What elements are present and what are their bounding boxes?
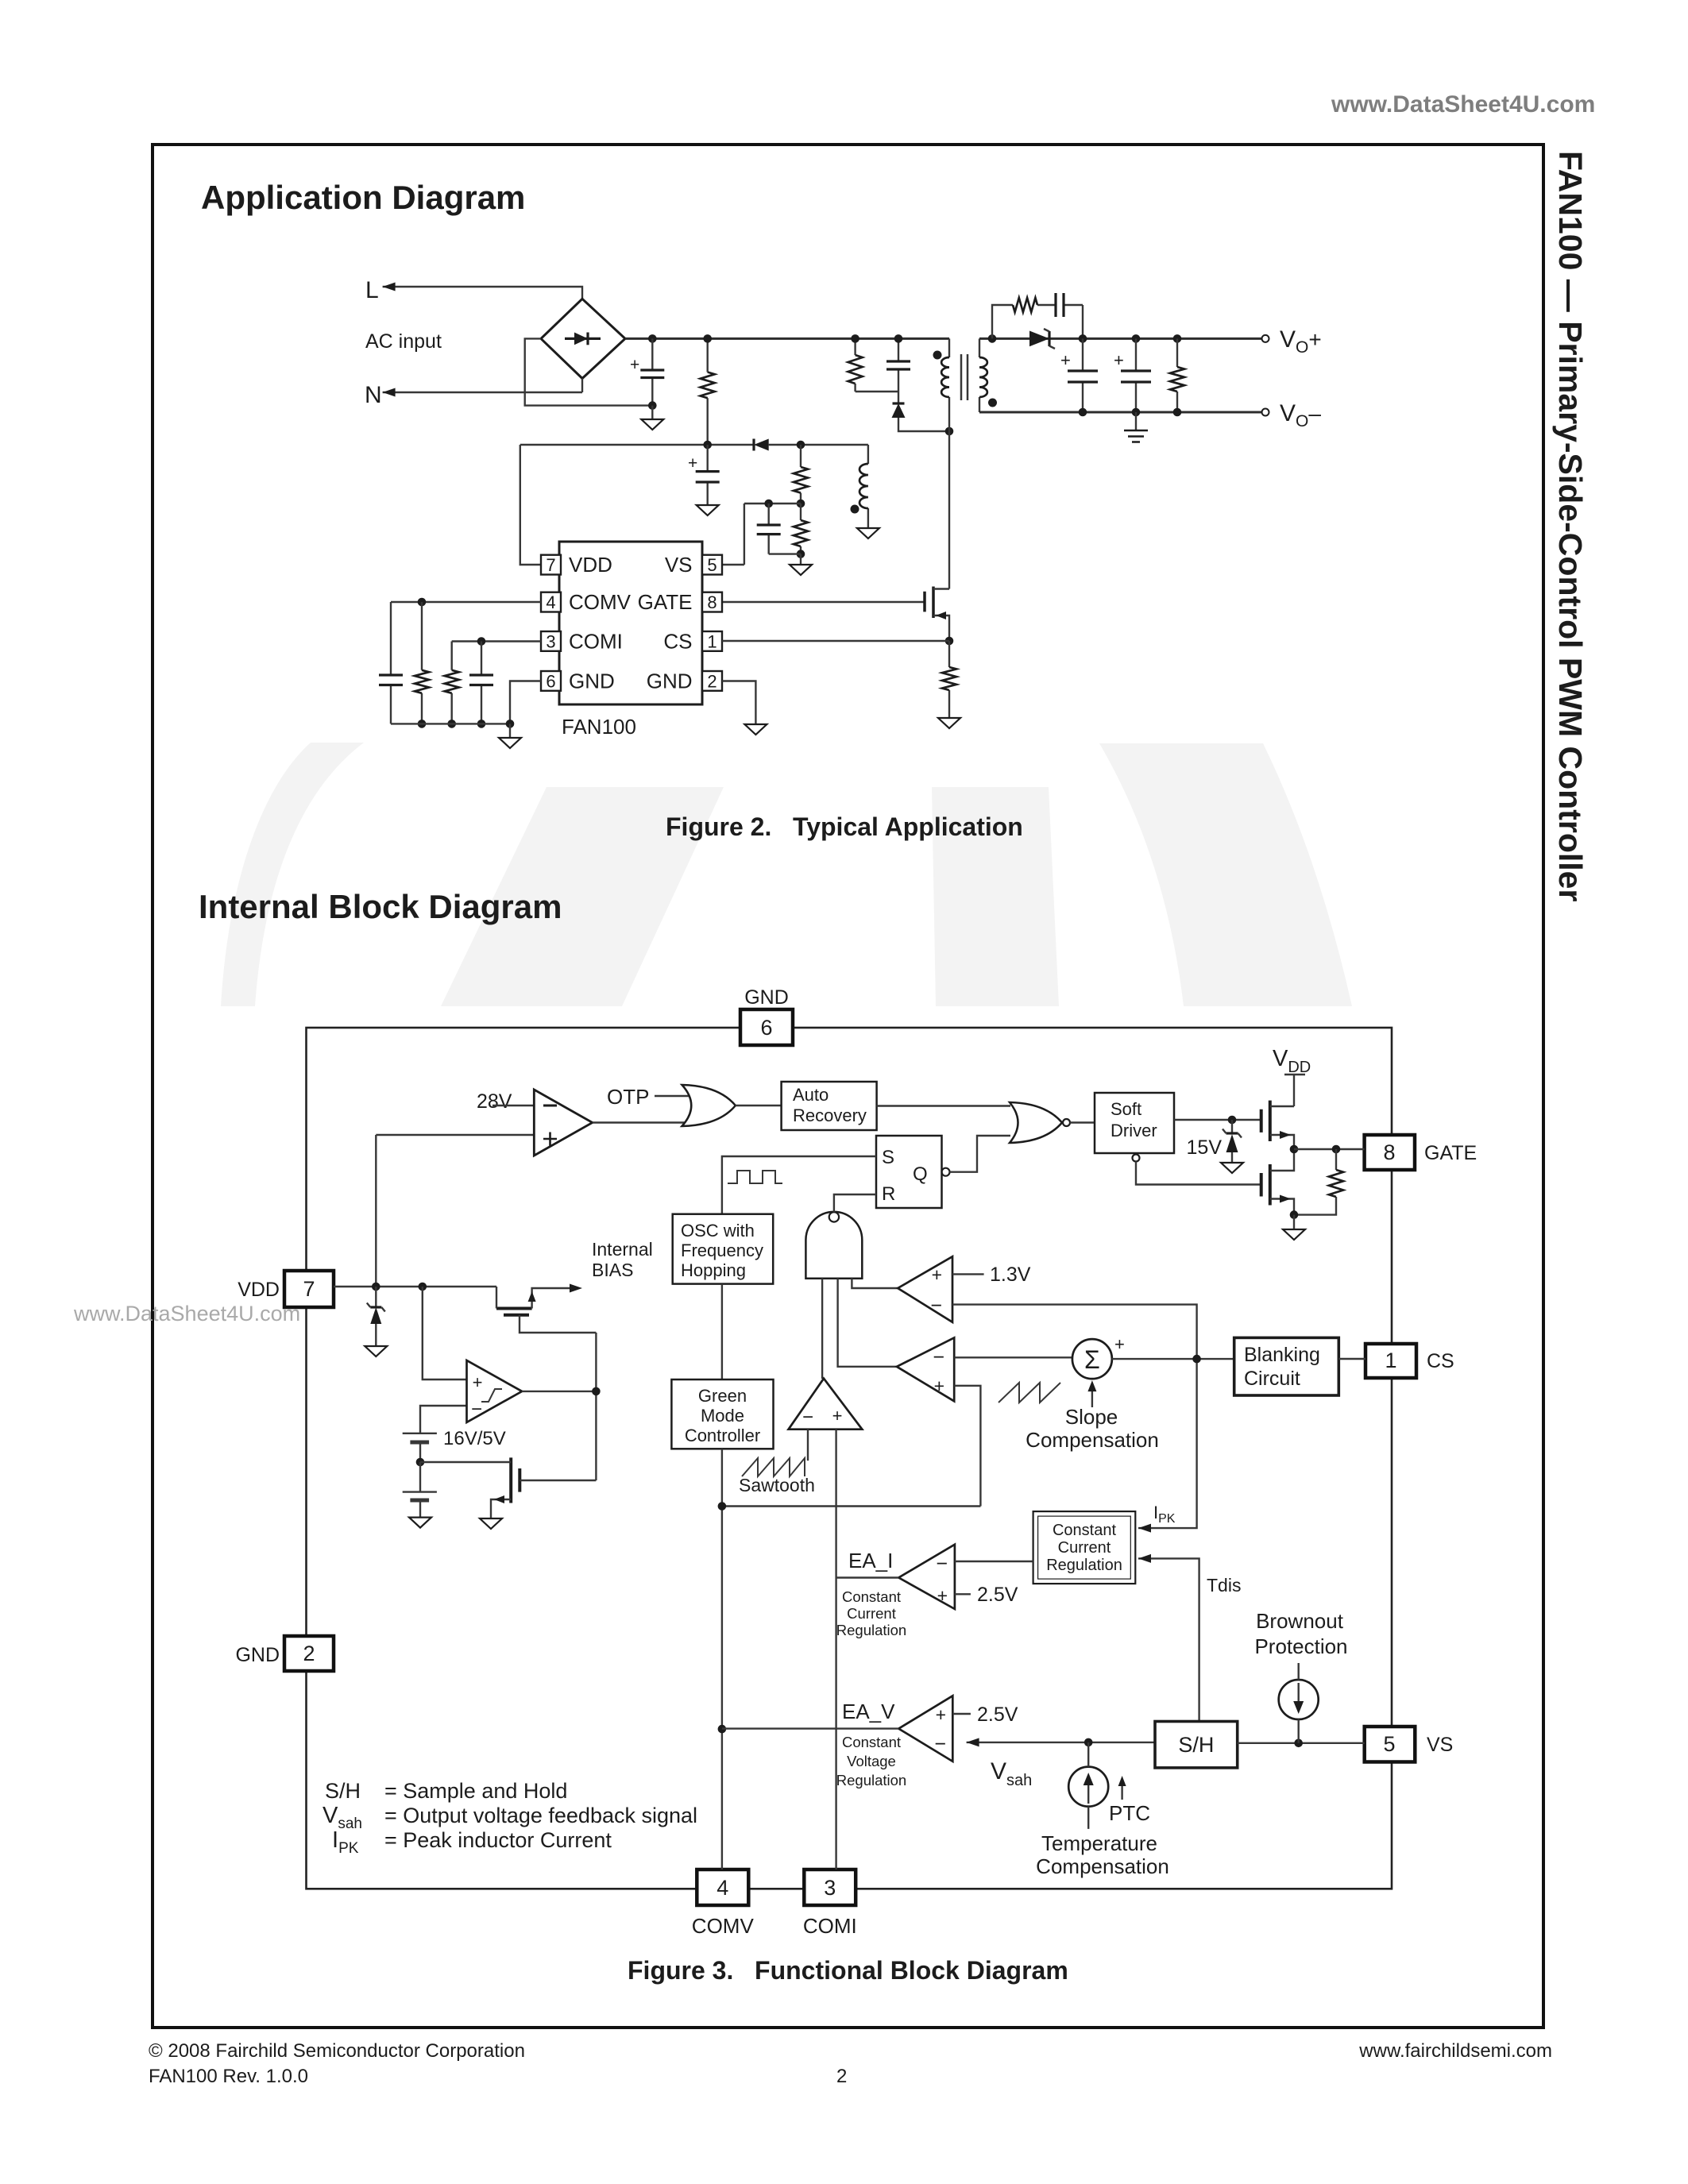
wire OSC to GMC [721,1284,723,1379]
sidebar title [1552,151,1589,901]
svg-text:Regulation: Regulation [1046,1557,1122,1574]
svg-text:−: − [930,1295,942,1317]
wire VDD pin to regulator [334,1286,496,1287]
svg-text:Controller: Controller [685,1426,760,1445]
square wave symbol [728,1171,782,1183]
wire Auto Recovery to NOR [877,1105,1010,1106]
resistor R1 startup [701,338,715,445]
svg-text:FAN100: FAN100 [562,715,636,739]
junction [797,441,805,450]
pin 1 CS [1365,1344,1416,1378]
block OSC with Frequency Hopping [673,1214,774,1284]
pin 4 [541,592,561,612]
svg-text:8: 8 [1383,1140,1395,1164]
block SH sample hold [1155,1722,1238,1768]
zener D5 15V [1223,1120,1242,1163]
svg-text:+: + [473,1372,483,1392]
transformer T1 [941,338,987,431]
svg-text:GND: GND [744,986,789,1009]
capacitor C6 snubber [856,338,910,392]
wire EA_I minus [955,1561,1033,1562]
svg-text:Slope: Slope [1065,1405,1118,1429]
wire EA_V plus ref [952,1713,971,1715]
junction [648,334,657,343]
latch U4 SR [876,1136,942,1208]
svg-text:Protection: Protection [1254,1634,1347,1658]
pin 2 [702,671,722,691]
battery B2 [403,1462,437,1518]
svg-text:Constant: Constant [842,1734,901,1750]
wire S input from OSC [722,1156,876,1214]
wire CS [722,640,949,642]
svg-text:+: + [630,356,639,374]
svg-text:COMV: COMV [569,590,632,614]
wire Tdis [1138,1558,1199,1721]
diode D2 aux [754,439,769,451]
svg-text:Compensation: Compensation [1036,1854,1169,1878]
ground [744,724,767,735]
svg-text:5: 5 [707,555,717,575]
svg-text:1.3V: 1.3V [990,1264,1031,1286]
wire driver high output [1174,1119,1261,1121]
svg-text:+: + [1114,1334,1125,1354]
svg-text:3: 3 [546,632,555,652]
wire SH to VS pin [1238,1742,1365,1744]
wire OR to Auto Recovery [736,1105,782,1106]
junction [894,334,903,343]
wire GND2 pin [722,681,755,725]
svg-text:+: + [688,454,697,473]
svg-text:Mode: Mode [701,1406,744,1426]
resistor R4 snubber [848,338,863,392]
svg-text:S/H: S/H [325,1779,361,1803]
junction [703,441,712,450]
wire OTP input [655,1095,691,1097]
wire PWM plus to COMV node [722,1386,981,1507]
svg-text:BIAS: BIAS [592,1260,633,1280]
svg-text:www.DataSheet4U.com: www.DataSheet4U.com [73,1302,300,1325]
svg-text:GND: GND [235,1644,280,1666]
pin 4 COMV [697,1870,748,1905]
nor-gate U5 [1010,1102,1062,1143]
wire L line [383,287,582,299]
nand U6 PWM logic [805,1212,862,1279]
wire comp ground rail [391,723,510,724]
svg-text:7: 7 [546,555,555,575]
block Soft Driver [1095,1093,1174,1153]
wire PWM minus to summer [954,1356,1072,1358]
wire N line [383,392,582,393]
arrow PTC [1121,1784,1122,1800]
svg-text:www.fairchildsemi.com: www.fairchildsemi.com [1358,2040,1552,2062]
wire secondary bottom rail [979,411,1262,414]
VDD supply bar [1284,1075,1305,1106]
svg-text:2.5V: 2.5V [977,1584,1018,1606]
svg-text:4: 4 [717,1876,728,1900]
svg-text:GATE: GATE [638,590,693,614]
junction [648,401,657,410]
svg-text:Internal Block Diagram: Internal Block Diagram [199,888,562,925]
capacitor C3 VS filter [757,504,801,554]
block Constant Current Regulation [1033,1511,1136,1584]
wire input DC rail [625,338,949,340]
comparator U11 EA_V [898,1696,952,1761]
page frame [153,145,1543,2028]
svg-text:Frequency: Frequency [681,1241,763,1260]
wire GND6 [510,681,541,724]
wire sawtooth input [807,1430,809,1461]
wire NAND mid input from PWM comparator [838,1279,897,1367]
comparator U9 green mode [789,1379,863,1430]
svg-text:R: R [882,1183,895,1205]
junction [797,550,805,558]
svg-text:Figure 3. Functional Block D: Figure 3. Functional Block Diagram [628,1956,1068,1985]
pin 3 COMI [804,1870,856,1905]
wire slope comp arrow [1091,1389,1093,1407]
svg-text:+: + [936,1704,946,1725]
svg-text:GATE: GATE [1424,1142,1477,1164]
junction [797,500,805,508]
ground [480,1518,502,1529]
svg-text:1: 1 [1385,1349,1396,1372]
svg-text:Q: Q [913,1163,928,1185]
pin 6 [541,671,561,691]
wire NOR to Soft Driver [1070,1121,1095,1123]
capacitor C8 output [1114,338,1151,412]
svg-text:−: − [802,1406,813,1428]
resistor R5 sense [942,641,956,718]
junction [764,500,773,508]
ground [409,1518,431,1528]
wire NAND right input from 1.3V comparator [852,1279,898,1288]
current source PTC [1068,1742,1108,1829]
junction [703,334,712,343]
svg-text:AC input: AC input [365,330,442,353]
wire Q to NOR [950,1136,1011,1172]
svg-text:FAN100 Rev. 1.0.0: FAN100 Rev. 1.0.0 [149,2066,308,2087]
svg-text:Σ: Σ [1084,1345,1100,1374]
svg-text:+: + [1060,350,1071,370]
block Auto Recovery [782,1082,877,1130]
svg-text:Green: Green [698,1386,747,1406]
resistor R6 load [1170,338,1184,412]
junction [851,334,859,343]
wire EA_I plus ref [955,1593,971,1595]
bridge rectifier BR1 [541,299,625,392]
junction [1173,334,1182,343]
svg-text:Tdis: Tdis [1207,1575,1241,1596]
svg-text:EA_V: EA_V [842,1700,895,1723]
pin 5 [702,555,722,575]
svg-text:2: 2 [707,672,717,692]
comparator U7 1.3V [898,1256,952,1322]
svg-text:2.5V: 2.5V [977,1704,1018,1726]
battery B1 16V/5V [403,1433,437,1462]
earth ground [1124,412,1148,442]
wire 1.3V ref [952,1273,984,1275]
svg-text:28V: 28V [477,1090,512,1113]
svg-text:Current: Current [847,1605,896,1622]
resistor R9 gate pulldown [1294,1149,1343,1215]
wire gate node [1294,1148,1365,1150]
summer S1 [1072,1339,1112,1379]
svg-text:Compensation: Compensation [1026,1428,1159,1452]
polarity dot primary [933,351,942,360]
comparator U2 28V OVP [376,1106,534,1135]
or-gate U3 [682,1085,736,1126]
ground [499,723,521,748]
transistor Q1 MOSFET [722,587,949,642]
svg-text:1: 1 [707,632,717,652]
svg-text:Hopping: Hopping [681,1260,746,1280]
RC feedback branch R+C [992,293,1083,338]
wire EA_I output [836,1576,899,1578]
svg-text:Regulation: Regulation [836,1772,906,1788]
capacitor C2 VDD [688,445,720,505]
svg-text:S/H: S/H [1178,1733,1214,1757]
svg-text:+: + [937,1585,948,1606]
polarity dot secondary [988,399,997,407]
svg-text:COMI: COMI [569,630,623,654]
wire comparator output [522,1333,596,1480]
svg-text:2: 2 [303,1642,315,1665]
current source brownout [1279,1663,1319,1743]
svg-text:5: 5 [1383,1732,1395,1756]
svg-text:Regulation: Regulation [836,1622,906,1638]
transistor Q3 driver low [1261,1149,1294,1215]
pin 1 [702,631,722,651]
svg-text:−: − [471,1399,482,1420]
svg-text:N: N [365,382,382,408]
svg-text:COMV: COMV [692,1914,755,1938]
ground [697,505,719,515]
svg-text:Auto: Auto [793,1085,829,1105]
wire NAND left input [821,1279,823,1379]
pin 3 [541,631,561,651]
svg-text:4: 4 [546,592,555,612]
wire driver low output [1136,1162,1261,1185]
comparator U10 EA_I [898,1545,955,1609]
polarity dot [851,505,859,514]
ground [938,718,960,728]
junction [988,334,997,343]
ground [857,528,879,538]
svg-text:−: − [936,1553,948,1575]
svg-text:VS: VS [665,553,693,577]
svg-text:EA_I: EA_I [848,1549,893,1572]
svg-text:Brownout: Brownout [1256,1609,1344,1633]
junction [1132,334,1141,343]
diode D4 schottky output [1029,329,1055,349]
capacitor C7 output [1060,338,1098,412]
ground [790,554,812,575]
svg-text:6: 6 [760,1016,772,1040]
capacitor C4 [379,602,403,723]
transistor Q4 pass [496,1284,596,1333]
svg-text:Sawtooth: Sawtooth [739,1475,815,1495]
svg-text:© 2008 Fairchild Semiconductor: © 2008 Fairchild Semiconductor Corporati… [149,2040,525,2062]
svg-text:OSC with: OSC with [681,1221,755,1241]
wire VS sense [722,504,801,565]
decorative watermark [221,743,1352,1006]
junction [945,427,954,436]
ground [365,1346,387,1356]
svg-text:7: 7 [303,1277,315,1301]
svg-text:+: + [832,1406,843,1426]
wire COMV [391,601,541,603]
svg-text:www.DataSheet4U.com: www.DataSheet4U.com [1331,91,1595,118]
comparator U12 hysteresis 16V/5V [420,1287,522,1433]
svg-text:CS: CS [663,630,692,654]
svg-text:COMI: COMI [803,1914,857,1938]
svg-text:8: 8 [707,592,717,612]
svg-text:6: 6 [546,672,555,692]
wire 1.3V minus to CS bus [952,1305,1197,1529]
svg-text:Current: Current [1058,1539,1111,1557]
junction [945,637,954,646]
wire GMC to COMV pin [721,1449,723,1870]
svg-text:Voltage: Voltage [847,1753,896,1769]
svg-text:PTC: PTC [1109,1801,1150,1825]
driver low bubble [1133,1155,1140,1162]
wire drain [948,431,950,589]
svg-text:OTP: OTP [607,1085,649,1109]
Q output bubble [942,1168,950,1176]
wire COMI [452,640,541,642]
svg-text:Constant: Constant [1053,1522,1116,1539]
svg-text:GND: GND [647,669,693,693]
wire secondary top rail [979,338,1262,340]
terminal Vo- [1262,409,1269,416]
svg-text:= Output voltage feedback sign: = Output voltage feedback signal [384,1804,697,1827]
resistor R7 comv [415,602,429,723]
wire VDD rail [520,445,868,565]
pin 8 [702,592,722,612]
sawtooth symbol [742,1458,805,1476]
transistor Q5 clamp [420,1457,596,1518]
diode D3 clamp [892,392,950,431]
svg-text:S: S [882,1147,894,1168]
svg-text:−: − [934,1733,946,1755]
svg-text:Temperature: Temperature [1041,1831,1157,1855]
terminal Vo+ [1262,335,1269,342]
svg-text:Constant: Constant [842,1588,901,1605]
wire NAND to R [834,1194,876,1212]
svg-text:VDD: VDD [238,1279,280,1301]
block diagram border [307,1028,1393,1889]
svg-text:2: 2 [836,2066,847,2087]
comparator U8 PWM [897,1337,954,1401]
resistor R2 divider upper [794,445,808,504]
svg-text:L: L [365,277,379,303]
svg-text:+: + [932,1264,942,1285]
resistor R3 divider lower [794,504,808,554]
transistor Q2 driver high [1261,1101,1294,1149]
wire blanking to CS pin [1338,1358,1365,1360]
svg-text:FAN100 — Primary-Side-Control: FAN100 — Primary-Side-Control PWM Contro… [1552,151,1589,901]
svg-text:VDD: VDD [569,553,612,577]
wire comparator to OR [593,1121,690,1123]
junction [1079,334,1087,343]
IC U1 FAN100 [559,542,702,704]
wire summer output [1112,1358,1234,1360]
svg-text:Application Diagram: Application Diagram [201,179,525,216]
wire green plus leg COMI bus [835,1430,836,1870]
svg-text:= Peak inductor Current: = Peak inductor Current [384,1828,612,1852]
ground [641,406,663,430]
wire 28V plus input [375,1135,377,1287]
svg-text:Blanking: Blanking [1244,1344,1320,1366]
capacitor C1 bulk [630,338,664,405]
wire EA_V output to COMV [722,1727,898,1729]
wire EA_V minus from SH [967,1742,1155,1743]
wire bridge loop [525,338,653,405]
pin 8 GATE [1365,1135,1415,1170]
ground [1283,1215,1305,1240]
svg-text:+: + [934,1376,944,1396]
capacitor C5 [469,642,493,724]
sawtooth symbol slope [999,1383,1060,1403]
svg-text:Internal: Internal [592,1239,653,1260]
ground [1221,1163,1243,1173]
svg-text:= Sample and Hold: = Sample and Hold [384,1779,567,1803]
inductor L1 aux winding [859,445,868,528]
svg-text:CS: CS [1427,1350,1454,1372]
pin 7 [541,555,561,575]
svg-text:GND: GND [569,669,615,693]
svg-text:3: 3 [824,1876,836,1900]
svg-text:Driver: Driver [1111,1121,1157,1140]
svg-text:Soft: Soft [1111,1099,1141,1119]
block Green Mode Controller [671,1379,773,1449]
svg-text:15V: 15V [1187,1136,1223,1159]
svg-text:Figure 2. Typical Applicatio: Figure 2. Typical Application [666,812,1023,841]
svg-text:Recovery: Recovery [793,1106,867,1125]
resistor R8 comi [445,642,459,724]
svg-text:VS: VS [1427,1734,1453,1756]
block Blanking Circuit [1234,1337,1339,1395]
svg-text:−: − [933,1346,944,1368]
pin 5 VS [1365,1727,1416,1762]
svg-text:Circuit: Circuit [1244,1368,1300,1390]
svg-text:16V/5V: 16V/5V [443,1428,506,1449]
zener D6 VDD clamp [367,1287,385,1346]
svg-text:+: + [1114,350,1124,370]
